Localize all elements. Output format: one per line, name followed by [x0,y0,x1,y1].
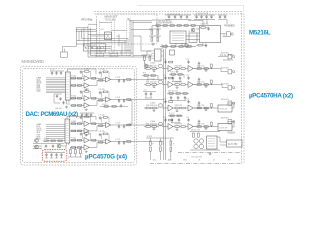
svg-text:DAC: PCM69AU (x2): DAC: PCM69AU (x2) [26,111,79,118]
capacitor cluster B [145,92,147,96]
svg-text:PB50A: PB50A [228,132,236,135]
wire DAC1 top loop [68,69,97,74]
svg-text:MAIN BOARD: MAIN BOARD [22,59,45,64]
svg-text:CH2: CH2 [116,36,120,38]
RC cluster between rows 1-2 [171,74,175,76]
power connector box [227,140,243,147]
capacitor mute C1 [45,153,47,157]
DAC U3 (PCM69AU) [65,119,70,143]
wire VR input stubs [76,28,97,31]
wire bottom horizontals [88,56,133,58]
wire psu link [217,137,227,145]
input caps left cluster [151,30,153,34]
bottom resistor stack 3 [170,141,172,145]
RC cluster between rows 2-3 [169,93,173,95]
bottom resistor stack 2 [160,141,162,145]
jack LINE OUT 5 [228,120,235,124]
capacitor DAC1 bottom [62,101,64,105]
resistor under IC [198,44,202,46]
main board outline (double dashed) [20,66,137,165]
wire fader nested loops right [119,34,131,55]
connector block B [110,53,118,57]
left mid cluster caps [56,95,58,99]
wire mid horizontals [88,41,127,49]
capacitor row C [168,15,170,19]
resistor cluster mid-left A [144,75,148,77]
capacitor CE1 [194,139,198,143]
line-amp row 3 (U6a) [144,98,218,112]
wire left mid cluster [54,94,62,103]
transistor Q501 [191,28,195,32]
transistor Q11 [35,139,39,143]
svg-text:HEAD SET: HEAD SET [105,15,118,19]
svg-text:CH1: CH1 [100,29,104,31]
svg-text:C53 C54 R51: C53 C54 R51 [191,157,202,159]
wire top feed [152,20,203,26]
svg-text:Q5: Q5 [188,31,190,33]
op-amp stage row 2 (U2b I/V + LPF) [70,89,134,111]
svg-text:KLH-78: KLH-78 [220,109,228,111]
line-amp row 4 (U6b) [144,117,218,131]
ground mute caps [45,157,62,158]
svg-text:KLH-83: KLH-83 [221,53,229,55]
wire DAC2 top loop [67,117,96,120]
wire left bus vertical [88,26,91,57]
DAC U3 bypass cap row [80,112,94,114]
connector J2 (board link) [155,49,162,61]
signal bus pair vertical [164,49,166,160]
svg-text:C C C: C C C [50,69,56,71]
wire cluster B [143,92,156,99]
svg-text:M5216L: M5216L [249,29,271,36]
wire fader exits right [131,30,152,52]
capacitor mute C4 [60,153,62,157]
capacitor CE3 [194,144,198,148]
fader pot box [105,32,112,40]
DAC U1 (PCM69AU) [65,72,70,100]
left mid cluster [144,56,146,60]
svg-text:AC2: AC2 [168,159,172,162]
svg-text:KLH-78: KLH-78 [220,128,228,130]
phones jack [227,32,234,36]
op-amp stage row 3 (U4a I/V + LPF) [70,114,134,136]
small box TP [170,50,175,55]
svg-text:IC501 HA: IC501 HA [201,23,210,26]
svg-text:KLH-837: KLH-837 [85,46,105,50]
svg-text:PHONES: PHONES [225,25,236,28]
svg-text:KLH-83: KLH-83 [221,68,229,70]
wire cap row 2 bus [194,15,215,23]
resistor mute R [44,140,48,142]
wire relay feeds [162,44,182,50]
wire top exits right [129,21,152,23]
line-amp row 1 (U5a) [144,59,218,73]
ground left cluster [152,43,155,46]
wire IC out to phones [221,34,227,37]
capacitor inside IC loop [207,27,209,31]
resistor row under relay [160,45,196,47]
wire left mid cluster [141,55,152,66]
op-amp stage row 1 (U2a I/V + LPF) [70,69,134,91]
mid supply row [100,105,128,107]
bottom resistor stack 1 [150,141,152,145]
wire cluster A [142,75,158,80]
jack LINE OUT 1 [228,55,235,59]
wire mute extra [33,146,66,149]
wire right verticals up [131,21,133,57]
ground PSU [209,152,212,155]
capacitor row 2 (right) [195,15,197,19]
op-amp stage row 4 (U4b I/V + LPF) [70,131,134,153]
transistor Q21 [144,64,148,68]
capacitor top far right [219,15,221,19]
connector KLH-837 label box [83,44,106,51]
connector block A [96,53,104,57]
svg-text:KLH-83: KLH-83 [221,118,229,120]
wire fader bottom extra [88,52,133,54]
wire top far right [218,15,227,24]
ribbon cable 1 (dashed pair) [97,21,100,58]
wire DAC2 input pins [46,124,65,140]
svg-text:R1 R2 R3 R4 R5: R1 R2 R3 R4 R5 [156,23,173,25]
resistor inside IC loop [201,27,205,29]
line-amp row 2 (U5b) [144,75,218,89]
svg-text:TP1: TP1 [127,19,132,21]
wire fader rungs extra [84,30,128,50]
fader unit dashed box [97,14,158,44]
svg-text:VR3 VR3a: VR3 VR3a [81,19,93,22]
diode D1 D2 [193,133,195,137]
svg-text:µPC4570HA (x2): µPC4570HA (x2) [249,93,293,100]
driver Q box [189,33,197,43]
RC cluster between rows 3-4 [170,115,174,117]
connector pin row [97,51,125,54]
capacitor mute C2 [50,153,52,157]
transistor Q13 [57,144,61,148]
wire rows to jacks [218,57,234,128]
capacitor under IC [205,44,207,48]
wire under IC [196,43,206,48]
mute driver cluster above red box [33,144,64,149]
chassis ground dash-dot lines [178,152,241,154]
DAC U1 bypass cap row [50,70,64,72]
wire mute bus [45,152,66,154]
svg-text:R R R: R R R [44,138,50,140]
svg-text:GND: GND [183,160,188,162]
jack LINE OUT 2 [228,70,235,74]
transistor Q12 [35,145,39,149]
svg-text:R R R: R R R [147,136,153,138]
left drop connector [63,47,77,53]
svg-text:C C C C: C C C C [45,151,52,153]
wire cap row bus [165,15,191,20]
power supply cluster [190,132,220,151]
relay box K1 [218,105,232,112]
wire fader mids extra [88,23,112,37]
muting relay box RY1 [170,31,186,44]
jack LINE OUT 4 [228,101,235,105]
DAC2 bottom decoupling [67,143,69,146]
headphone amp IC box [200,26,221,43]
red highlight box (mute transistor group) [42,149,67,161]
svg-text:104 104: 104 104 [55,108,62,110]
capacitor CE2 [199,139,203,143]
wire left feed vertical [77,28,89,47]
DAC1 bottom decoupling [67,100,71,104]
svg-text:C5 C6 C7 C8: C5 C6 C7 C8 [196,13,209,15]
wire main->mid exits [135,80,164,142]
svg-text:R R C: R R C [170,72,176,74]
wire IC pins left [186,29,200,40]
svg-text:OUTPUT: OUTPUT [223,59,233,62]
transistor Q502 [185,44,189,48]
board outline: front panel / jack board (double dashed) [95,12,245,163]
svg-text:AC1: AC1 [153,159,157,162]
jack LINE OUT 3 [228,86,235,90]
svg-text:IC601: IC601 [150,63,155,65]
wire right stack [68,147,82,157]
relay box K2 [218,124,232,131]
regulator box [207,136,218,149]
svg-text:µPC4570G (x4): µPC4570G (x4) [85,154,127,161]
capacitor mute C3 [55,153,57,157]
svg-text:R 47 C: R 47 C [102,104,108,106]
ribbon cable 3 (dashed pair) [127,21,130,58]
wire inter-dac vertical [128,101,132,125]
svg-text:R C R: R C R [169,113,175,115]
wire bottom stacks [146,138,174,160]
wire left cluster [149,26,161,37]
resistor row R [152,25,199,27]
svg-text:D1 D2 C51: D1 D2 C51 [191,130,200,132]
svg-text:562 562 271: 562 562 271 [168,91,178,93]
faint page rule top [137,5,244,11]
ribbon cable 2 (dashed pair) [112,21,115,58]
capacitor CE4 [199,144,203,148]
svg-text:KLH-784: KLH-784 [228,143,238,146]
wire top link [133,51,152,57]
svg-text:IOUT: IOUT [37,91,41,93]
capacitor mute extra [45,145,47,149]
svg-text:KLH-83: KLH-83 [221,84,229,86]
ground DAC1 bottom [65,106,68,109]
wire DAC1 input pins [46,78,65,93]
wire fader nested loops left [79,28,88,47]
svg-text:KLH-83: KLH-83 [221,99,229,101]
resistor stack right of red box [70,150,72,154]
